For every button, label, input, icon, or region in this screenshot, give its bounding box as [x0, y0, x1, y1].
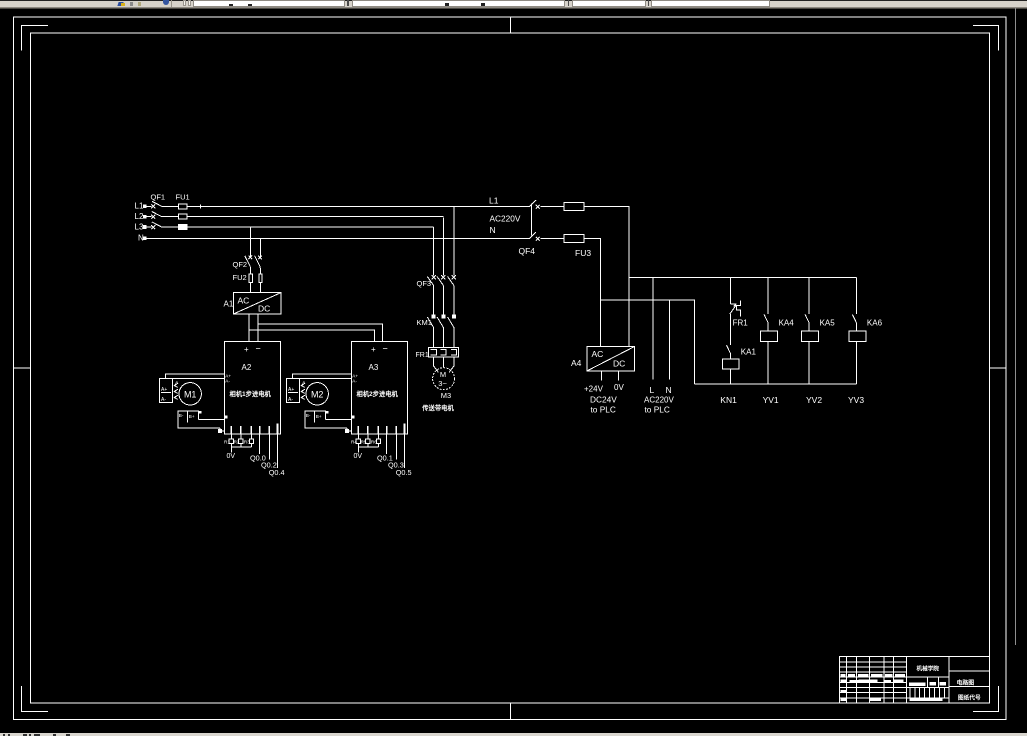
winding chevrons M2: [301, 383, 305, 399]
resistor R4: [351, 434, 360, 445]
wire YV2 coil to bus: [808, 341, 810, 383]
svg-text:FU3: FU3: [575, 248, 591, 258]
wire KN1 coil to bus: [730, 369, 732, 384]
svg-text:QF2: QF2: [233, 260, 248, 269]
svg-text:KM1: KM1: [417, 318, 432, 327]
svg-text:相机1步进电机: 相机1步进电机: [230, 389, 272, 398]
contact KA1 normally open: [727, 345, 731, 354]
wire A4 0V pin: [618, 371, 620, 381]
title block middle blobs: [909, 682, 946, 701]
wire FR1 to M3 phase 2: [442, 357, 444, 368]
wire M2 box B to A3 pin B: [326, 418, 352, 420]
title block middle row dividers: [928, 677, 939, 687]
svg-text:M: M: [440, 370, 446, 379]
svg-text:B+: B+: [189, 414, 195, 419]
svg-text:图纸代号: 图纸代号: [958, 694, 981, 702]
wire DC minus feed to A3: [258, 324, 383, 342]
wire L3 to fuse: [162, 226, 179, 228]
corner centering mark top-right: [973, 26, 998, 51]
fuse on L1 control: [564, 202, 584, 210]
svg-text:QF3: QF3: [417, 279, 432, 288]
svg-text:相机2步进电机: 相机2步进电机: [357, 389, 399, 398]
wire resistor join A2: [231, 443, 251, 452]
wire YV3 coil to bus: [856, 341, 858, 383]
svg-text:A: A: [302, 380, 306, 385]
svg-text:A: A: [175, 380, 179, 385]
wire L2 drop to QF3: [442, 218, 444, 276]
svg-text:L1: L1: [135, 202, 144, 211]
title block text blobs left row 2: [840, 680, 903, 683]
net +24V 0V labels: [584, 383, 624, 394]
wire M1 box B to A2 pin B: [199, 418, 225, 420]
svg-text:N: N: [666, 385, 672, 395]
svg-text:AC220V: AC220V: [490, 214, 521, 224]
svg-text:R3: R3: [244, 440, 250, 445]
svg-text:KA5: KA5: [820, 318, 836, 327]
svg-text:YV1: YV1: [763, 395, 779, 405]
svg-text:A+: A+: [161, 387, 167, 393]
wire N branch: [601, 300, 695, 384]
corner centering mark top-left: [22, 26, 49, 51]
title block right horizontals: [949, 671, 989, 687]
breaker QF2 pole 1: [245, 256, 252, 267]
wire FR1 to KA1: [730, 314, 732, 345]
wire QF4 L to FU3: [541, 205, 564, 207]
svg-text:to PLC: to PLC: [645, 404, 670, 414]
wire FU2 to A1 pole 1: [250, 282, 252, 292]
svg-text:FU2: FU2: [233, 273, 247, 282]
svg-text:FR1: FR1: [416, 352, 429, 359]
bottom status strip (cropped command line): [0, 733, 1027, 736]
wire Q0.1 pin: [386, 434, 388, 454]
wire Q0.5 pin: [404, 434, 406, 468]
wire branch YV2 top: [808, 278, 810, 315]
wire A3 pin A- to motor M2 terminal box: [286, 378, 351, 380]
wire L3 drop to QF3: [433, 227, 435, 276]
wire L2 to fuse: [162, 216, 179, 218]
wire L2 horizontal run: [187, 216, 443, 218]
svg-text:KA1: KA1: [741, 347, 757, 356]
svg-text:FR1: FR1: [733, 318, 749, 327]
svg-text:0V: 0V: [354, 453, 363, 460]
wire A1 minus output down: [257, 314, 259, 342]
wire A2 pin A- to motor M1 terminal box: [159, 378, 224, 380]
breaker QF4 linkage: [530, 203, 532, 235]
svg-text:机械学院: 机械学院: [917, 665, 940, 673]
svg-text:AC: AC: [592, 349, 604, 359]
pin label B on A2: [225, 416, 227, 418]
svg-text:M1: M1: [184, 389, 197, 399]
svg-text:M3: M3: [441, 391, 451, 400]
wire A4 +24V pin: [601, 371, 603, 381]
coil KN1: [723, 359, 740, 369]
resistor R5: [361, 434, 370, 445]
net DC24V to PLC caption: [590, 395, 617, 415]
motor M1 terminal box B: [178, 411, 220, 428]
svg-text:B-: B-: [179, 413, 184, 418]
title block section dividers: [907, 657, 949, 703]
svg-text:KA6: KA6: [867, 318, 883, 327]
wire QF2 to FU2 pole 1: [249, 267, 251, 274]
svg-text:R4: R4: [351, 440, 357, 445]
svg-text:AC: AC: [238, 296, 250, 306]
contactor KM1 pole 2: [437, 315, 445, 347]
toolbar strip (top, cropped): [0, 0, 1027, 1]
coil YV3: [849, 323, 866, 342]
wire N horizontal run: [146, 237, 530, 239]
svg-text:R2: R2: [234, 440, 240, 445]
contactor KM1 pole 1: [427, 315, 435, 347]
svg-text:YV3: YV3: [848, 395, 864, 405]
wire N drop to QF2: [260, 238, 262, 257]
motor M1: [179, 383, 201, 405]
svg-text:M2: M2: [311, 389, 324, 399]
svg-text:R6: R6: [371, 440, 377, 445]
svg-text:A3: A3: [369, 363, 379, 372]
svg-text:R1: R1: [224, 440, 230, 445]
node N terminal square: [143, 237, 146, 240]
title block outline: [839, 657, 989, 703]
svg-text:L1: L1: [489, 196, 499, 206]
motor M2: [306, 383, 328, 405]
svg-text:+24V: +24V: [584, 385, 604, 394]
wire Q0.2 pin: [268, 434, 270, 460]
svg-text:+: +: [371, 345, 376, 354]
wire branch YV1 top: [767, 278, 769, 315]
wire fuse L to corner: [584, 206, 629, 346]
breaker QF4 pole N: [530, 232, 540, 241]
title block middle small verticals: [910, 688, 945, 698]
svg-text:Q0.5: Q0.5: [396, 468, 412, 477]
fuse FU3 on N: [564, 234, 584, 242]
mid tick top edge: [509, 17, 511, 33]
wire QF2 to FU2 pole 2: [259, 267, 261, 274]
breaker QF4 pole L: [530, 200, 540, 209]
pin label B on A3: [352, 416, 354, 418]
title block left grid verticals: [847, 657, 894, 703]
svg-text:DC: DC: [613, 359, 625, 369]
motor M2 terminal box A: [286, 379, 299, 403]
svg-text:L2: L2: [135, 212, 144, 221]
svg-text:L: L: [650, 385, 655, 395]
mid tick right edge: [989, 367, 1006, 369]
svg-text:A-: A-: [288, 397, 293, 403]
title block left grid horizontals: [839, 662, 906, 698]
wire fuse N to corner: [584, 238, 601, 346]
title block text blobs left header row: [840, 674, 905, 677]
node L2 terminal square: [143, 215, 146, 218]
pin numbers on A3 bottom: [358, 424, 406, 434]
wire branch YV3 top: [856, 278, 858, 315]
mid tick bottom edge: [509, 703, 511, 720]
rectifier U A1 AC/DC converter: [234, 293, 281, 314]
wire Q0.4 pin: [277, 434, 279, 468]
contact KA4 normally open: [764, 315, 768, 323]
wire M1 box shield to A2 stub: [218, 428, 224, 432]
contactor KM1 pole 3: [448, 315, 456, 347]
stepper driver U A3 box: [351, 342, 407, 434]
thermal overload FR1 box: [429, 347, 459, 357]
wire L1 drop to QF3: [453, 206, 455, 275]
drawing window edge line: [1015, 8, 1017, 645]
svg-text:Q0.4: Q0.4: [269, 468, 285, 477]
svg-text:B-: B-: [306, 413, 311, 418]
svg-text:YV2: YV2: [806, 395, 822, 405]
resistor R2: [234, 434, 243, 445]
power supply U A4 AC/DC: [587, 347, 634, 371]
svg-text:N: N: [490, 225, 496, 235]
svg-text:−: −: [256, 344, 261, 354]
coil YV2: [802, 323, 819, 342]
coil YV1: [761, 323, 778, 342]
wire Q0.3 pin: [395, 434, 397, 460]
node L1 terminal square: [143, 205, 146, 208]
svg-text:to PLC: to PLC: [591, 404, 616, 414]
wire A1 plus output down: [248, 314, 250, 342]
wire L1 horizontal run: [187, 205, 530, 207]
svg-text:A-: A-: [225, 379, 230, 384]
svg-text:L3: L3: [135, 223, 144, 232]
net AC220V to PLC caption: [644, 396, 674, 415]
wire resistor join A3: [358, 443, 378, 452]
wire top bus L: [629, 277, 857, 279]
wire L1 to fuse: [162, 205, 179, 207]
svg-text:A2: A2: [242, 363, 252, 372]
breaker QF3 pole 3: [448, 275, 456, 315]
wire A3 pin A+ to motor M2 terminal box: [293, 374, 352, 379]
breaker QF3 pole 1: [427, 275, 435, 315]
fuse FU2 pole 1: [249, 274, 252, 283]
fuse FU2 pole 2: [259, 274, 262, 283]
wire bottom bus N: [695, 383, 857, 385]
title block text blobs bottom row: [840, 697, 881, 701]
resistor R1: [224, 434, 233, 445]
svg-text:R5: R5: [361, 440, 367, 445]
wire Q0.0 pin: [259, 434, 261, 454]
svg-text:KA4: KA4: [779, 318, 795, 327]
winding chevrons M1: [174, 383, 178, 399]
title block text blob row 7: [840, 690, 846, 693]
mid tick left edge: [14, 367, 31, 369]
motor M3: [433, 368, 455, 390]
svg-text:传送带电机: 传送带电机: [421, 403, 454, 412]
resistor R3: [244, 434, 254, 445]
wire L drop to PLC: [652, 278, 654, 380]
wire L3 drop to QF2: [250, 227, 252, 258]
wire FU2 to A1 pole 2: [260, 282, 262, 292]
svg-text:A-: A-: [352, 379, 357, 384]
wire YV1 coil to bus: [767, 341, 769, 383]
wire FR1 to M3 phase 3: [449, 357, 454, 372]
contact KA6 normally open: [852, 315, 856, 323]
contact FR1 normally closed: [730, 300, 741, 316]
node L3 terminal square: [143, 226, 146, 229]
svg-text:电路图: 电路图: [956, 679, 974, 687]
wire FR1 to M3 phase 1: [434, 357, 439, 372]
motor M1 terminal box A: [159, 379, 172, 403]
svg-text:KN1: KN1: [720, 395, 737, 405]
title block middle horizontals: [907, 677, 949, 698]
svg-text:0V: 0V: [614, 383, 624, 392]
wire L3 horizontal run: [187, 226, 433, 228]
fuse FU1 pole 3: [178, 225, 187, 230]
wire A2 pin A+ to motor M1 terminal box: [166, 374, 225, 379]
breaker QF3 pole 2: [437, 275, 445, 315]
svg-text:FU1: FU1: [176, 193, 190, 202]
stepper driver U A2 box: [224, 342, 280, 434]
wire QF4 N to FU3: [541, 237, 564, 239]
svg-text:3~: 3~: [438, 379, 447, 388]
pin numbers on A2 bottom: [231, 424, 279, 434]
wire KA1 to coil: [730, 354, 732, 359]
fuse FU1 pole 1: [178, 204, 187, 209]
svg-text:+: +: [244, 345, 249, 354]
wire branch KN1 top: [730, 278, 732, 304]
breaker QF1 pole 2: [146, 212, 162, 219]
svg-text:DC24V: DC24V: [590, 395, 617, 405]
wire N drop to PLC: [668, 300, 670, 380]
svg-text:−: −: [383, 344, 388, 354]
wire M2 box shield to A3 stub: [345, 428, 351, 432]
svg-text:A4: A4: [571, 358, 582, 368]
svg-text:0V: 0V: [227, 453, 236, 460]
wire DC plus feed to A3: [249, 330, 374, 342]
svg-text:QF4: QF4: [519, 246, 536, 256]
svg-text:QF1: QF1: [151, 193, 166, 202]
junction tick on L1: [199, 204, 203, 208]
breaker QF1 pole 1: [146, 201, 162, 208]
motor M2 terminal box B: [305, 411, 347, 428]
svg-text:B+: B+: [316, 414, 322, 419]
resistor R6: [371, 434, 381, 445]
corner centering mark bottom-right: [973, 686, 998, 711]
svg-text:A+: A+: [288, 387, 294, 393]
contact KA5 normally open: [805, 315, 809, 323]
corner centering mark bottom-left: [22, 686, 49, 711]
breaker QF2 pole 2: [255, 256, 262, 267]
svg-text:A1: A1: [224, 300, 234, 309]
svg-text:DC: DC: [258, 304, 270, 314]
svg-text:A-: A-: [161, 397, 166, 403]
breaker QF1 pole 3: [146, 222, 162, 229]
fuse FU1 pole 2: [178, 214, 187, 219]
